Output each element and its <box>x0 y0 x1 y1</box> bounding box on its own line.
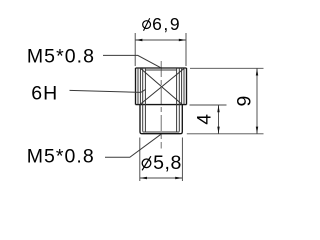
svg-text:6,9: 6,9 <box>152 14 181 34</box>
svg-text:9: 9 <box>234 96 256 107</box>
svg-text:M5*0.8: M5*0.8 <box>27 46 95 68</box>
svg-text:4: 4 <box>195 114 216 125</box>
svg-text:6H: 6H <box>31 82 58 104</box>
svg-text:5,8: 5,8 <box>153 152 182 174</box>
svg-text:M5*0.8: M5*0.8 <box>27 146 95 168</box>
